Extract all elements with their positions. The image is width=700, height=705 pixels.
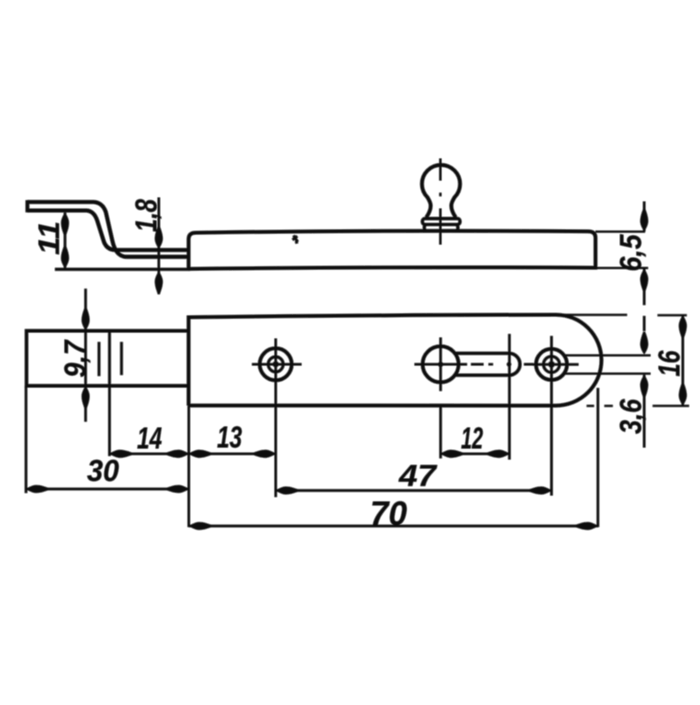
svg-text:9,7: 9,7	[58, 339, 93, 377]
dim 12	[441, 453, 510, 455]
dim 9,7	[84, 289, 86, 422]
dim 70	[189, 525, 598, 527]
rod (bolt)	[27, 331, 189, 386]
dim 30	[26, 488, 189, 490]
knob collar lower	[424, 225, 458, 231]
knob centerline	[439, 159, 441, 245]
svg-text:70: 70	[370, 495, 407, 533]
plate side view	[189, 231, 596, 269]
bracket bottom outline	[28, 211, 189, 251]
dim 6,5	[643, 202, 645, 306]
hole 1 outer	[260, 348, 292, 380]
extension plate left	[188, 406, 190, 527]
slot left circle	[423, 346, 459, 382]
extension rod left	[25, 386, 27, 493]
svg-text:13: 13	[217, 420, 242, 455]
rod tick 1	[98, 342, 101, 376]
svg-text:14: 14	[137, 421, 162, 456]
16 extension top a	[560, 314, 627, 316]
hole 1 center dot	[273, 361, 279, 367]
top edge extension right	[596, 231, 646, 233]
3,6 extension bottom	[564, 373, 651, 375]
3,6 extension top	[564, 354, 651, 356]
slot body	[455, 353, 520, 375]
slot center dot	[438, 362, 443, 367]
hole 2 inner	[544, 356, 560, 372]
rod joint line	[108, 331, 111, 386]
centerline dash	[471, 363, 484, 365]
slot end vertical + extension	[508, 334, 510, 460]
slot crosshair vertical	[439, 338, 441, 392]
hole 2 crosshair horizontal	[533, 363, 579, 365]
slot end center dot	[507, 362, 511, 366]
hole 2 outer	[536, 349, 567, 380]
bottom edge extension right	[596, 267, 649, 269]
dim 47	[276, 489, 552, 491]
dim 11	[64, 213, 66, 269]
bracket left end cap	[26, 200, 30, 212]
dim 1,8	[158, 198, 160, 295]
slot crosshair horizontal	[415, 363, 468, 365]
baseline	[55, 268, 190, 271]
svg-text:16: 16	[652, 350, 687, 377]
svg-text:47: 47	[398, 458, 438, 493]
svg-text:1,8: 1,8	[129, 198, 164, 232]
svg-text:11: 11	[33, 221, 66, 255]
dim 3,6	[643, 316, 645, 448]
slot center extension down	[439, 406, 441, 459]
centerline dash 2	[524, 363, 533, 365]
svg-text:30: 30	[87, 453, 119, 488]
hole 2 crosshair vertical + extension	[550, 336, 552, 496]
knob profile	[422, 165, 460, 217]
extension rod joint	[108, 386, 110, 456]
rod tick 2	[120, 342, 123, 375]
svg-text:6,5: 6,5	[613, 234, 648, 272]
dim 14	[110, 453, 189, 455]
16 extension bottom c	[653, 405, 689, 407]
16 extension bottom dash a	[587, 405, 594, 407]
dim 13	[189, 453, 276, 455]
hole 1 inner	[268, 357, 283, 372]
plate plan outline	[189, 315, 602, 406]
plate right extent extension	[597, 388, 599, 527]
hole 1 crosshair vertical + extension	[275, 339, 277, 498]
knob collar upper	[422, 219, 460, 225]
16 extension bottom dash b	[604, 405, 612, 407]
svg-text:12: 12	[461, 421, 483, 456]
dim 16	[682, 315, 684, 405]
centerline dot	[489, 363, 494, 365]
svg-text:3,6: 3,6	[613, 398, 648, 434]
surface mark on plate top edge	[293, 236, 298, 243]
hole 1 crosshair horizontal	[252, 363, 302, 365]
hole 2 center dot	[548, 361, 554, 367]
bracket top outline	[28, 202, 189, 257]
16 extension top b	[658, 314, 687, 316]
